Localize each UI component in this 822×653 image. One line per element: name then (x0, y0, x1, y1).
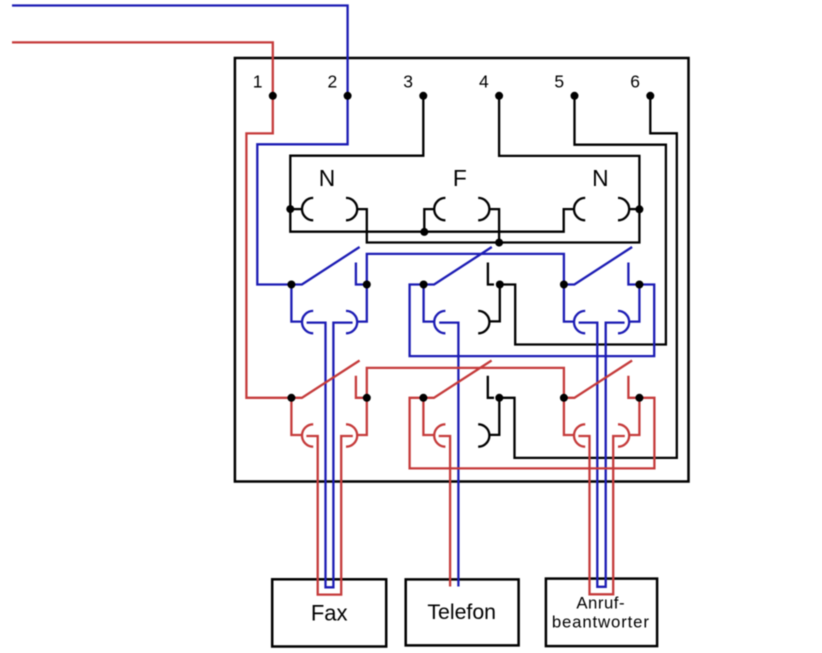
wire terminal 1 down to left red switch pole (246, 96, 291, 398)
wire terminal 3 to left-N frame (top edge, left edge, bottom rail, riser to right-N) (290, 96, 574, 232)
node pole left red switch (287, 394, 295, 402)
contact stub left blue switch (356, 263, 367, 285)
svg-text:beantworter: beantworter (552, 613, 650, 632)
node terminal 2 (344, 92, 352, 100)
node pole right red switch (560, 394, 568, 402)
svg-text:Fax: Fax (311, 601, 348, 626)
svg-text:2: 2 (328, 71, 338, 91)
plug line to Telefon (red) (439, 436, 450, 587)
wire terminal 2 down to left blue switch pole (257, 96, 347, 285)
socket right-N right contact arc (618, 198, 629, 220)
wire terminal 5 to middle blue switch contact (500, 96, 666, 345)
svg-text:N: N (319, 165, 335, 191)
socket left-N right contact arc (346, 198, 357, 220)
wire middle blue pole to socket left contact (424, 285, 435, 322)
wire right blue second node to socket right contact (630, 285, 640, 322)
svg-text:3: 3 (403, 71, 413, 91)
node terminal 3 (419, 92, 427, 100)
socket right row3 right contact arc (618, 424, 629, 446)
wire left red second node to socket right contact (357, 398, 367, 435)
node pole left blue switch (287, 281, 295, 289)
socket right-N left contact arc (574, 198, 585, 220)
node right-N right contact (635, 205, 643, 213)
socket left row3 right contact arc (346, 424, 357, 446)
wire left red pole to socket left contact (291, 398, 302, 435)
switch lever right blue (564, 247, 632, 285)
plug lines to Fax (red pair) (306, 436, 352, 595)
node terminal 6 (646, 92, 654, 100)
wire right-N right contact to right edge node (629, 208, 639, 210)
node pole right blue switch (560, 281, 568, 289)
wire link middle red pole to right socket second node (410, 398, 655, 469)
plug line to Telefon (blue) (439, 323, 458, 587)
device box Telefon (406, 579, 519, 645)
wire incoming line b (red) to terminal 1 (12, 42, 273, 95)
node terminal 5 (571, 92, 579, 100)
plug lines to Anrufbeantworter (blue pair) (579, 323, 625, 587)
wire left blue pole to socket left contact (291, 285, 302, 322)
device box Fax (272, 579, 386, 646)
socket middle row2 left contact arc (434, 311, 445, 333)
wire left-N left contact from node (290, 208, 302, 210)
plug lines to Fax (blue pair) (307, 323, 353, 588)
wire F left contact to rail node (424, 209, 434, 232)
socket right row2 left contact arc (574, 311, 585, 333)
socket F right contact arc (478, 198, 489, 220)
plug lines to Anrufbeantworter (red pair) (578, 436, 624, 594)
socket left row2 right contact arc (346, 311, 357, 333)
wire left-N right contact to lower rail, to right edge, terminal 4 (357, 96, 639, 243)
switch lever middle red (423, 361, 491, 398)
wire middle red pole to socket left contact (423, 398, 434, 435)
socket right row2 right contact arc (618, 311, 629, 333)
socket F left contact arc (434, 198, 445, 220)
node second contact middle blue switch (496, 281, 504, 289)
wire middle red switch node to black contact arc (489, 398, 499, 435)
wire red rail from left socket node to right red switch pole (367, 368, 564, 398)
node left-N left contact (286, 205, 294, 213)
socket left row2 left contact arc (302, 311, 313, 333)
switch lever left red (291, 361, 359, 398)
switch lever middle blue (424, 247, 492, 285)
switch lever left blue (291, 247, 359, 285)
socket middle row2 right contact arc (black) (478, 311, 489, 333)
contact stub middle blue switch (black) (488, 263, 494, 285)
node second contact middle red switch (495, 394, 503, 402)
wire blue rail from left socket node to right blue switch pole (367, 254, 564, 285)
wire left blue second node to socket right contact (357, 285, 367, 322)
wire middle blue switch node to black contact arc (489, 285, 499, 322)
contact stub middle red switch (black) (488, 376, 494, 398)
svg-text:4: 4 (479, 71, 489, 91)
node second contact left blue switch (363, 281, 371, 289)
contact stub right red switch (628, 376, 639, 398)
wire link middle blue pole to right socket second node (410, 285, 655, 357)
node F left contact on rail (420, 228, 428, 236)
switch lever right red (564, 361, 632, 398)
socket left row3 left contact arc (302, 424, 313, 446)
svg-text:Anruf-: Anruf- (576, 594, 625, 613)
svg-text:5: 5 (554, 71, 564, 91)
junction box outline (235, 58, 689, 482)
node terminal 1 (269, 92, 277, 100)
svg-text:6: 6 (630, 71, 640, 91)
node terminal 4 (495, 92, 503, 100)
node second contact right red switch (635, 394, 643, 402)
svg-text:Telefon: Telefon (427, 600, 496, 624)
device box Anrufbeantworter (546, 579, 657, 647)
socket right row3 left contact arc (574, 424, 585, 446)
svg-text:N: N (592, 165, 608, 191)
socket middle row3 left contact arc (434, 424, 445, 446)
wire F right contact to lower rail node (489, 209, 499, 242)
wire right red pole to socket left contact (564, 398, 574, 435)
node second contact right blue switch (635, 281, 643, 289)
wire right red second node to socket right contact (630, 398, 640, 435)
wire right blue pole to socket left contact (564, 285, 574, 322)
node F right contact on lower rail (495, 239, 503, 247)
wire terminal 6 to middle red switch contact (499, 96, 677, 458)
node pole middle red switch (419, 394, 427, 402)
svg-text:F: F (453, 165, 467, 191)
socket left-N left contact arc (302, 198, 313, 220)
node second contact left red switch (363, 394, 371, 402)
node pole middle blue switch (420, 281, 428, 289)
svg-text:1: 1 (253, 71, 263, 91)
contact stub right blue switch (628, 263, 639, 285)
wire incoming line a (blue) to terminal 2 (12, 6, 348, 96)
contact stub left red switch (356, 376, 367, 398)
socket middle row3 right contact arc (black) (478, 424, 489, 446)
